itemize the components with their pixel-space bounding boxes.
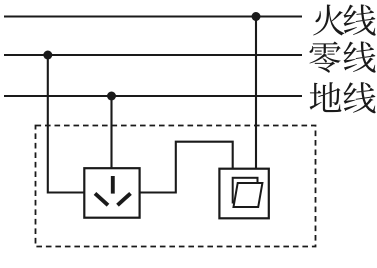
wire live 火线 (top horizontal) (4, 15, 302, 17)
wire: socket right terminal stepping up and over to switch top (140, 142, 233, 193)
label 火线 (live wire) (313, 4, 375, 35)
socket earth slot (vertical) (111, 176, 115, 194)
label 零线 (neutral wire) (309, 41, 375, 72)
dashed enclosure box (household wiring boundary) (36, 126, 316, 247)
socket right slot (angled) (118, 193, 131, 205)
junction node on earth wire (107, 92, 116, 101)
switch flap front parallelogram (234, 183, 263, 207)
wire: neutral branch down and right to socket left terminal (48, 55, 85, 193)
label 地线 (earth wire) (310, 82, 376, 113)
junction node on neutral wire (43, 51, 52, 60)
switch S body (219, 169, 268, 219)
wire earth 地线 (bottom horizontal) (4, 95, 302, 97)
wire neutral 零线 (middle horizontal) (4, 54, 302, 56)
socket XS (three-pin outlet) body (84, 168, 139, 218)
wire: earth branch down to socket top terminal (110, 96, 112, 168)
socket left slot (angled) (95, 193, 108, 205)
switch flap back rectangle (233, 178, 258, 203)
junction node on live wire (252, 12, 261, 21)
wire: live branch down to switch (255, 17, 257, 169)
